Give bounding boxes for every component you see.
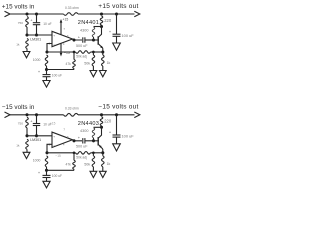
wire input rail left segment	[10, 114, 64, 116]
wire input rail right segment	[78, 114, 135, 116]
node +15V output terminal	[134, 11, 140, 17]
capacitor C1 10 uF	[33, 123, 40, 125]
resistor R6 50k adj	[76, 51, 91, 54]
svg-text:+: +	[53, 134, 55, 138]
svg-text:−15: −15	[55, 154, 61, 158]
wire op-amp inverting input feedback	[47, 44, 52, 53]
node rail junction G	[115, 12, 118, 15]
op-amp U1 LM301	[52, 132, 73, 147]
svg-text:500 uF: 500 uF	[76, 145, 88, 149]
wire op-amp output	[73, 140, 83, 141]
svg-text:750: 750	[18, 21, 23, 25]
svg-text:1000: 1000	[33, 159, 41, 163]
resistor R4 4300 (base-collector)	[92, 27, 95, 37]
svg-text:1000: 1000	[33, 58, 41, 62]
svg-text:50k adj: 50k adj	[76, 55, 87, 59]
ground (C4)	[113, 43, 121, 50]
svg-text:100 uF: 100 uF	[122, 33, 135, 38]
resistor R1 0.33 ohm (series pass rail)	[64, 13, 79, 16]
node rail junction D	[100, 113, 103, 116]
capacitor C2 500 uF (series)	[82, 37, 84, 42]
capacitor C2 500 uF (series)	[82, 138, 84, 143]
wire feedback line right	[91, 152, 103, 154]
node collector junction	[100, 126, 103, 129]
node feedback junction E	[45, 151, 48, 154]
node B (reference divider tap)	[25, 134, 28, 137]
resistor R7 1000	[45, 55, 48, 66]
svg-text:1k: 1k	[107, 162, 111, 166]
wire op-amp V- pin 4	[60, 43, 62, 53]
resistor R5 220	[100, 16, 103, 25]
wire node B to op-amp noninverting input	[27, 135, 52, 137]
wire node F to 47k bottom	[47, 169, 75, 171]
svg-text:220: 220	[104, 119, 112, 124]
svg-text:750: 750	[18, 122, 23, 126]
resistor R8 47k	[73, 52, 75, 60]
wire C1 to node B rail	[36, 25, 38, 35]
ground (C4)	[113, 144, 121, 151]
svg-text:0.33 ohm: 0.33 ohm	[65, 107, 79, 111]
wire rail to C4	[116, 14, 118, 34]
wire R4 to base node	[93, 37, 95, 40]
resistor R9 50k	[92, 52, 94, 55]
svg-text:100 uF: 100 uF	[52, 73, 62, 77]
node -15V output terminal	[134, 112, 140, 118]
wire rail to C1	[36, 115, 38, 123]
wire feedback line right	[91, 51, 103, 53]
node B (reference divider tap)	[25, 33, 28, 36]
wire R4 to base node	[93, 138, 95, 141]
node rail junction A	[25, 113, 28, 116]
resistor R3 1k	[26, 39, 29, 49]
svg-text:+15: +15	[63, 17, 69, 21]
wire C3 to ground	[46, 77, 48, 81]
wire R2 to node B	[26, 128, 28, 136]
node +15 supply arrow (pin 7)	[60, 19, 63, 23]
wire C1 to node B rail	[36, 126, 38, 136]
resistor R10 1k	[102, 52, 104, 55]
wire R3 to ground	[26, 49, 28, 52]
wire input rail right segment	[78, 13, 135, 15]
svg-text:100 uF: 100 uF	[122, 134, 135, 139]
svg-text:2N4403: 2N4403	[78, 121, 99, 127]
svg-text:1k: 1k	[16, 143, 20, 147]
svg-text:+: +	[53, 34, 55, 38]
wire R4 top to collector node	[94, 26, 102, 28]
svg-text:LM301: LM301	[30, 37, 41, 41]
resistor R4 4300 (base-collector)	[92, 128, 95, 138]
svg-text:50k adj: 50k adj	[76, 156, 87, 160]
wire node F to C3	[46, 170, 48, 175]
ground (R10)	[99, 171, 106, 177]
node rail junction A	[25, 12, 28, 15]
node F	[45, 68, 48, 71]
svg-text:4300: 4300	[80, 129, 88, 133]
svg-text:0.33 ohm: 0.33 ohm	[65, 6, 79, 10]
wire node F to 47k bottom	[47, 69, 75, 71]
wire emitter to feedback line	[102, 48, 104, 52]
wire node F to C3	[46, 70, 48, 75]
node op-amp output junction	[72, 38, 75, 41]
wire node B to op-amp noninverting input	[27, 34, 52, 36]
node 50k tap	[92, 51, 95, 54]
capacitor C1 10 uF	[33, 22, 40, 24]
svg-text:1k: 1k	[107, 61, 111, 65]
transistor Q1 2N4401	[97, 36, 99, 44]
node base junction	[92, 139, 95, 142]
resistor R2 750	[26, 17, 29, 28]
svg-text:4300: 4300	[80, 28, 88, 32]
svg-text:220: 220	[104, 18, 112, 23]
wire R7 to node F	[46, 167, 48, 171]
resistor R6 50k adj	[76, 152, 91, 155]
svg-text:1k: 1k	[16, 43, 20, 47]
node 50k tap	[92, 151, 95, 154]
ground (reference divider)	[23, 52, 30, 58]
wire C2 to base node	[85, 39, 99, 41]
node rail junction C	[35, 113, 38, 116]
node base junction	[92, 38, 95, 41]
svg-text:2N4401: 2N4401	[78, 20, 99, 26]
ground (R10)	[99, 71, 106, 77]
wire C4 to ground	[116, 137, 118, 144]
wire R7 to node F	[46, 66, 48, 70]
node -15V input terminal	[5, 112, 11, 118]
wire C4 to ground	[116, 36, 118, 43]
node +15V input terminal	[5, 11, 11, 17]
svg-text:−15 volts out: −15 volts out	[98, 104, 138, 111]
wire R3 to ground	[26, 149, 28, 152]
wire emitter to feedback line	[102, 149, 104, 153]
node feedback junction E	[45, 50, 48, 53]
wire feedback line left	[47, 152, 76, 154]
node rail junction C	[35, 12, 38, 15]
wire op-amp V+ pin 7	[60, 22, 62, 35]
wire rail to C4	[116, 115, 118, 135]
svg-text:LM301: LM301	[30, 138, 41, 142]
wire C2 to base node	[85, 140, 99, 142]
resistor R2 750	[26, 117, 29, 128]
svg-text:+15 volts out: +15 volts out	[98, 3, 138, 10]
svg-text:−: −	[53, 143, 55, 147]
resistor R1 0.33 ohm (series pass rail)	[64, 113, 79, 116]
node op-amp output junction	[72, 139, 75, 142]
node F	[45, 169, 48, 172]
node collector junction	[100, 25, 103, 28]
wire C3 to ground	[46, 178, 48, 182]
resistor R9 50k	[92, 153, 94, 156]
resistor R5 220	[100, 117, 103, 126]
resistor R3 1k	[26, 139, 29, 149]
resistor R8 47k	[73, 153, 75, 161]
resistor R7 1000	[45, 156, 48, 167]
ground (C3)	[43, 181, 50, 188]
node 47k tap	[73, 151, 76, 154]
wire rail to C1	[36, 14, 38, 22]
svg-text:50k: 50k	[84, 162, 90, 166]
ground (R9)	[90, 171, 97, 177]
node 47k tap	[73, 51, 76, 54]
op-amp U1 LM301	[52, 31, 73, 46]
wire feedback line left	[47, 51, 76, 53]
node C1/op-amp input junction	[35, 134, 38, 137]
wire input rail left segment	[10, 13, 64, 15]
svg-text:−15 volts in: −15 volts in	[2, 104, 35, 111]
svg-text:500 uF: 500 uF	[76, 44, 88, 48]
node rail junction D	[100, 12, 103, 15]
ground (R9)	[90, 71, 97, 77]
resistor R10 1k	[102, 153, 104, 156]
ground (C3)	[43, 81, 50, 88]
wire R4 top to collector node	[94, 126, 102, 128]
svg-text:50k: 50k	[84, 62, 90, 66]
svg-text:−15: −15	[64, 51, 70, 55]
svg-text:10 uF: 10 uF	[43, 22, 51, 26]
transistor Q1 2N4403	[97, 137, 99, 145]
node emitter junction	[101, 50, 104, 53]
svg-text:47k: 47k	[66, 62, 72, 66]
wire op-amp inverting input feedback	[47, 144, 52, 153]
wire R2 to node B	[26, 27, 28, 35]
wire op-amp output	[73, 39, 83, 40]
svg-text:100 uF: 100 uF	[52, 174, 62, 178]
node rail junction G	[115, 113, 118, 116]
node C1/op-amp input junction	[35, 33, 38, 36]
ground (reference divider)	[23, 152, 30, 158]
node -15 supply arrow (pin 4)	[60, 53, 63, 57]
svg-text:−: −	[53, 42, 55, 46]
svg-text:+15: +15	[50, 121, 56, 125]
svg-text:+15 volts in: +15 volts in	[2, 3, 35, 10]
svg-text:47k: 47k	[66, 163, 72, 167]
node emitter junction	[101, 151, 104, 154]
